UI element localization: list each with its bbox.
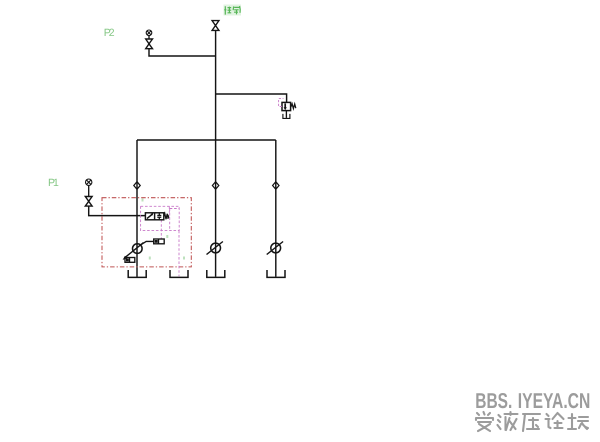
svg-text:P1: P1 [48,177,59,189]
shutoff valve P2 [146,39,153,49]
metering unit circle (middle) [211,243,221,253]
metering unit circle (right) [271,243,281,253]
pilot line valve to actuator (magenta dashed) [160,220,162,239]
tank T1 [128,270,146,277]
pilot box right of valve (magenta dashed) [170,209,179,231]
gauge port P2 [146,30,152,36]
actuator box A (upper right) [154,239,165,244]
wire left branch vertical [136,140,138,277]
wire P1 gauge stem [88,185,90,196]
tank T2 [170,270,188,277]
tank relief drain [283,114,290,119]
directional valve S1 [145,213,163,220]
spring of directional valve [164,214,169,220]
coupling diamond middle [212,182,218,190]
coupling diamond right [273,182,279,190]
wire P2 gauge stem [148,36,150,39]
shutoff valve P1 [85,197,92,207]
pilot enclosure (magenta dashed) [141,206,180,230]
label vent (green) [224,5,242,16]
pilot line valve top (magenta dashed) [168,206,170,213]
wire relief valve to tank [285,111,287,118]
actuator box B (lower left) [125,258,135,263]
gauge port P1 [86,179,92,185]
shutoff valve top vent [212,21,219,31]
tiny green marks [142,199,186,260]
svg-text:P2: P2 [104,27,115,39]
pilot drain line to tank T2 (magenta dashed) [178,231,180,277]
wire right branch vertical [275,140,277,277]
svg-text:BBS.: BBS. [475,389,512,413]
tank T4 [267,270,285,277]
adjustment arrow through circle [125,243,144,258]
wire elbow to actuator box A [141,241,154,245]
slash through middle circle [207,242,223,255]
relief valve R1 [282,102,291,110]
svg-text:IYEYA.CN: IYEYA.CN [518,389,591,413]
tank T3 [207,270,225,277]
wire relief branch [216,94,287,102]
wire P2 branch to main [149,49,216,56]
wire main vertical line [215,30,217,276]
enclosure box (red dash-dot) [102,198,191,267]
slash through right circle [267,242,283,255]
wire manifold horizontal [137,139,276,141]
metering unit circle (left) [133,244,143,254]
coupling diamond left [134,182,140,190]
spring of relief valve [291,104,296,109]
pilot line relief (magenta dashed) [279,99,284,107]
wire P1 to valve [89,206,146,216]
watermark chinese characters [476,412,588,431]
